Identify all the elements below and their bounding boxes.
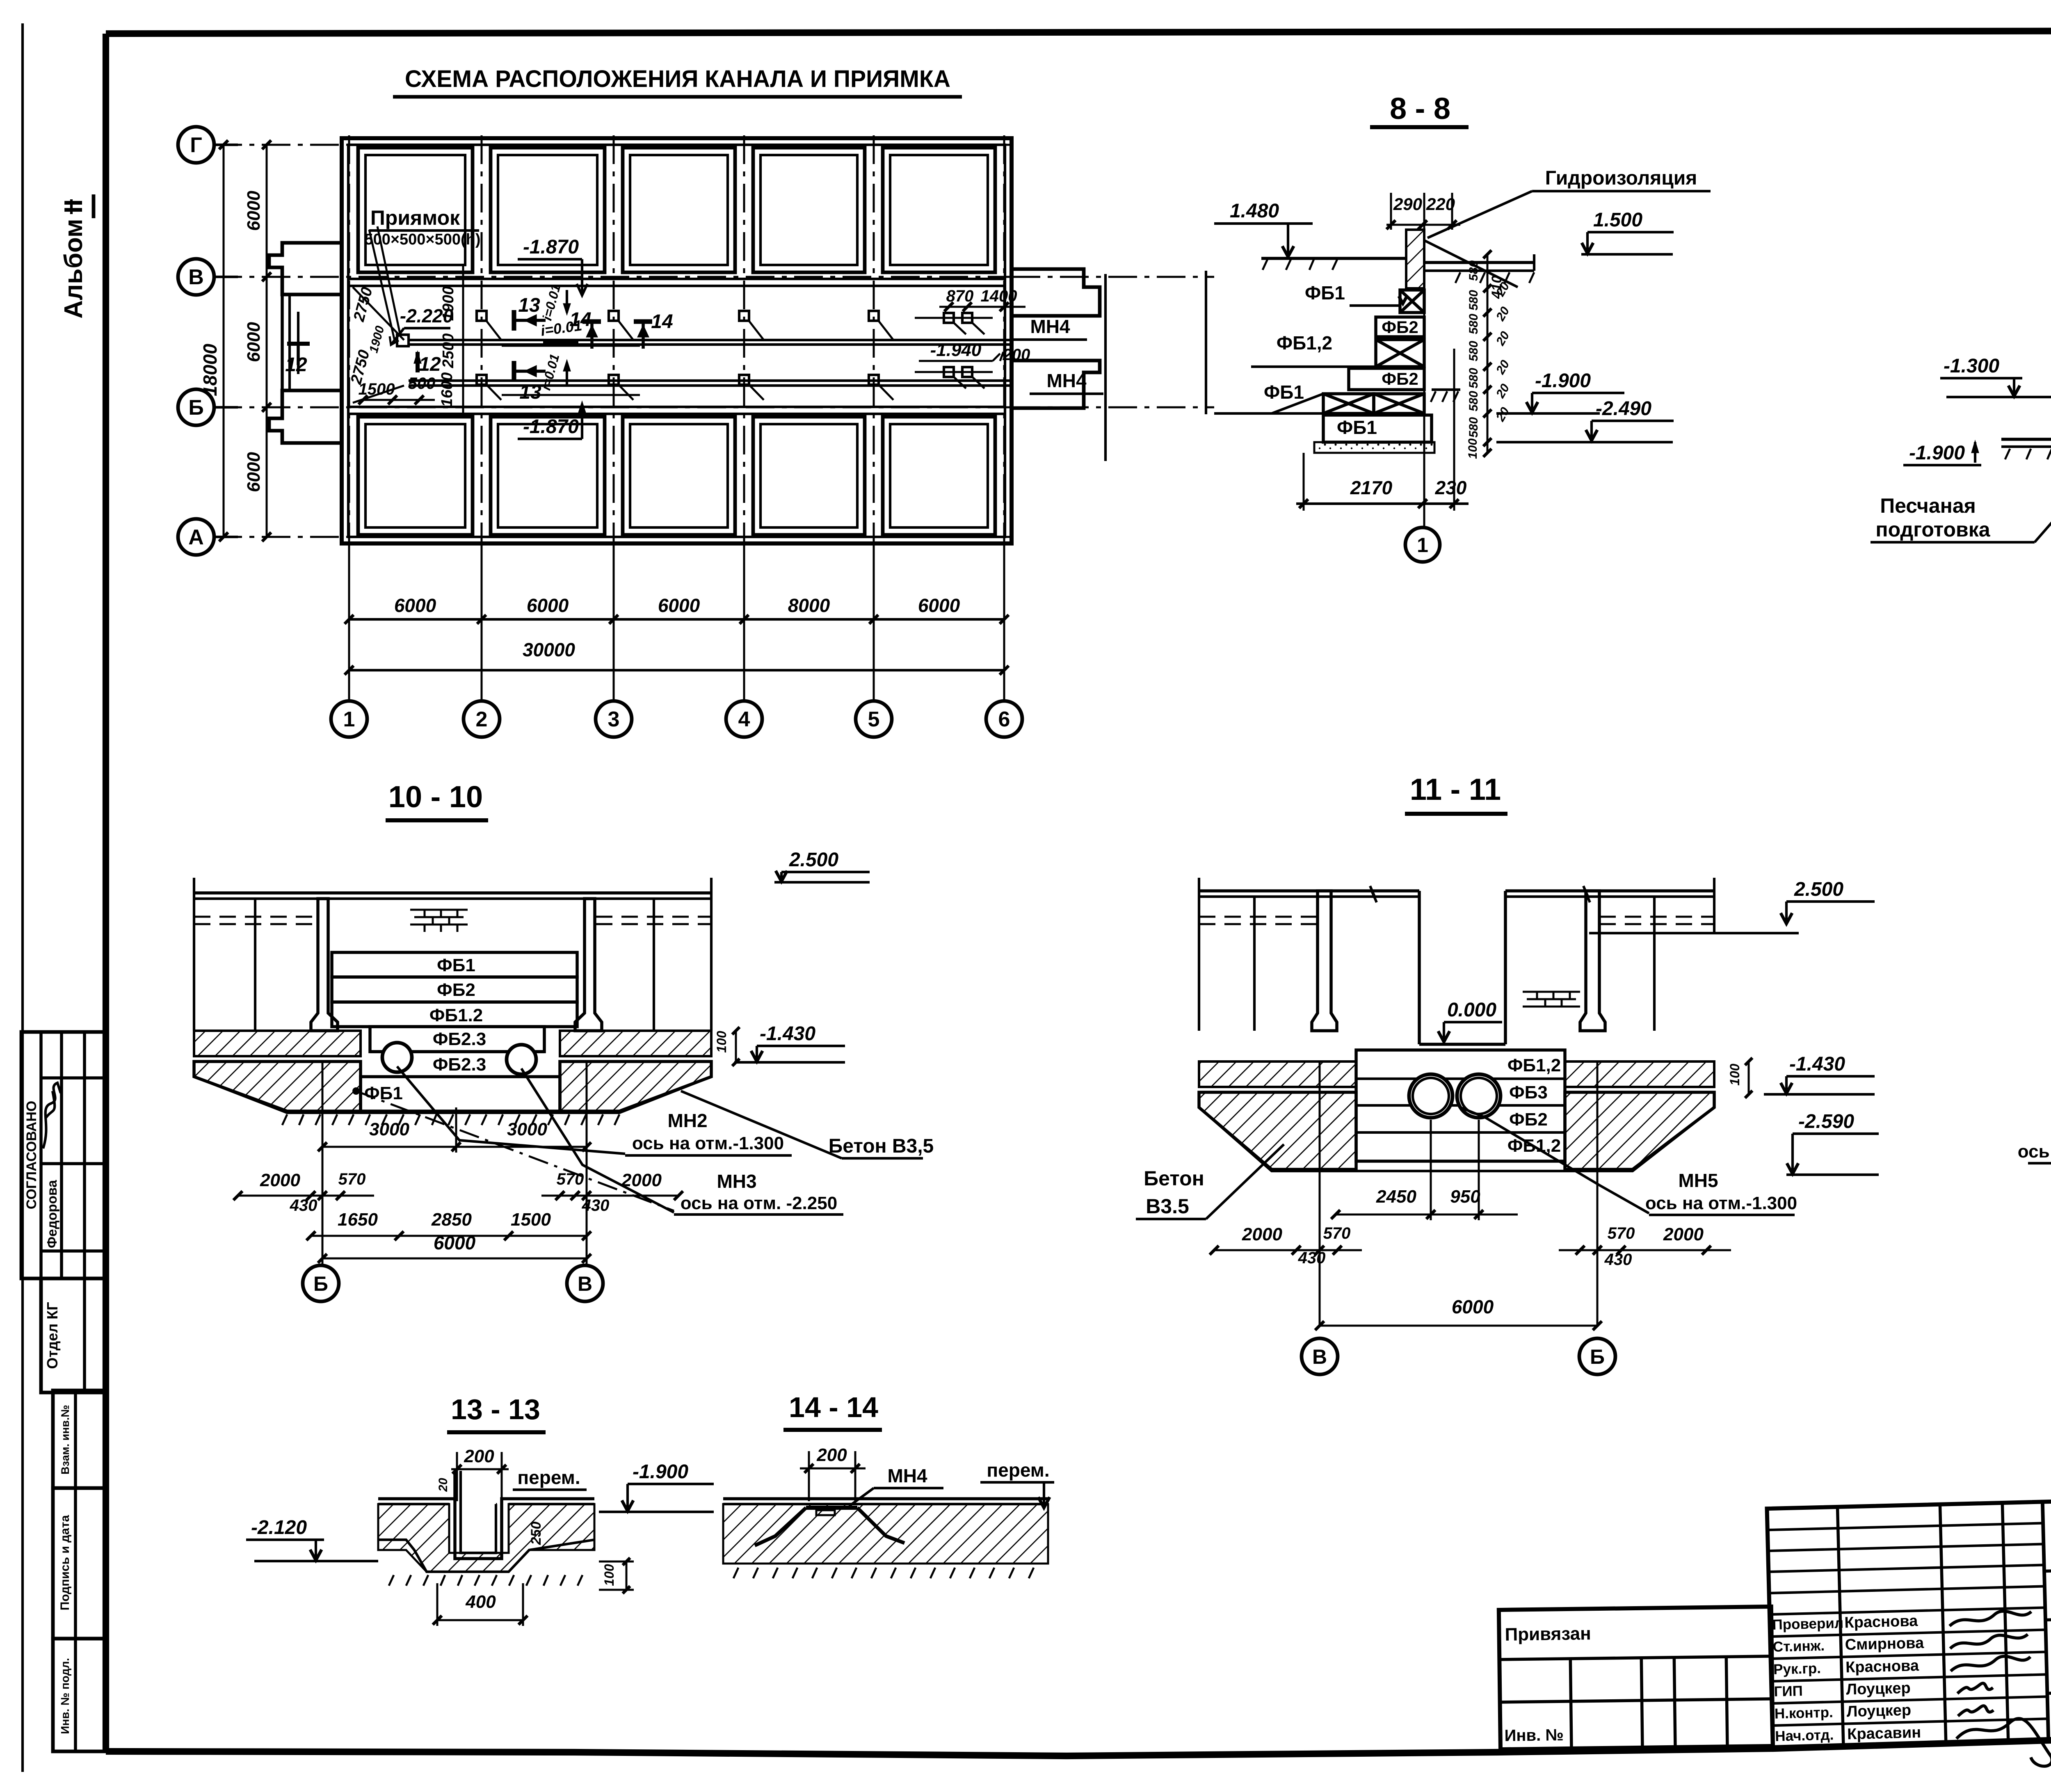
plan: left extension wall bottom <box>269 390 343 443</box>
plan: bottom row tank cells <box>358 417 473 535</box>
s10: pit axis dot leader <box>352 1087 360 1095</box>
svg-text:20: 20 <box>436 1478 450 1492</box>
svg-text:13: 13 <box>518 294 540 316</box>
svg-text:-1.940: -1.940 <box>930 340 982 360</box>
svg-text:Федорова: Федорова <box>44 1180 59 1248</box>
svg-text:ФБ1,2: ФБ1,2 <box>1507 1055 1561 1075</box>
svg-text:Гидроизоляция: Гидроизоляция <box>1545 167 1697 189</box>
svg-text:11 - 11: 11 - 11 <box>1410 772 1501 806</box>
svg-text:13: 13 <box>519 381 541 403</box>
s11: canal opening verticals <box>1418 891 1421 1044</box>
svg-text:570: 570 <box>338 1170 366 1188</box>
s10: block row FB2.3 <box>370 1027 544 1052</box>
s8: block FB1 top <box>1400 290 1424 313</box>
svg-text:2000: 2000 <box>1242 1224 1282 1244</box>
svg-text:ГИП: ГИП <box>1774 1683 1803 1700</box>
s10: right tank interior <box>653 899 655 1031</box>
s11: brick hatch <box>1523 991 1580 993</box>
svg-text:ФБ2: ФБ2 <box>1509 1109 1548 1130</box>
svg-text:-1.870: -1.870 <box>523 236 579 258</box>
svg-text:5: 5 <box>868 708 880 731</box>
s10: top floor lines <box>194 891 711 895</box>
svg-text:1600: 1600 <box>439 372 456 407</box>
svg-text:-2.490: -2.490 <box>1596 398 1651 420</box>
s10: left canal wall <box>311 899 338 1031</box>
svg-text:Проверил: Проверил <box>1772 1615 1843 1633</box>
s10: block row FB1.2 <box>332 1002 577 1027</box>
s11: left tank wall <box>1312 891 1337 1031</box>
s13: under profile <box>378 1540 594 1572</box>
svg-text:6000: 6000 <box>1452 1296 1494 1317</box>
svg-text:А: А <box>188 525 204 549</box>
svg-text:1900: 1900 <box>440 286 457 321</box>
privyazan table <box>1499 1607 1773 1749</box>
sheet trim line left <box>21 23 24 1772</box>
svg-text:-2.120: -2.120 <box>251 1517 307 1539</box>
svg-text:290: 290 <box>1393 194 1422 214</box>
plan: corridor wall lines <box>348 278 1005 280</box>
svg-text:Взам. инв.№: Взам. инв.№ <box>59 1405 71 1475</box>
plan: top row tank cells <box>358 148 473 272</box>
svg-text:6000: 6000 <box>434 1232 476 1253</box>
svg-text:430: 430 <box>1604 1251 1632 1269</box>
svg-text:250: 250 <box>528 1522 544 1545</box>
svg-text:-1.900: -1.900 <box>1909 442 1965 464</box>
s11: left floor slab <box>1199 1062 1356 1087</box>
s10: right wedge <box>560 1062 711 1111</box>
svg-text:Нач.отд.: Нач.отд. <box>1775 1727 1834 1744</box>
otdel KG cell <box>41 1278 107 1393</box>
svg-text:14: 14 <box>651 311 673 333</box>
s13: hatched ground body <box>378 1504 594 1572</box>
svg-text:ось на отм.-1.300: ось на отм.-1.300 <box>1645 1193 1797 1213</box>
svg-text:2000: 2000 <box>621 1170 662 1190</box>
svg-text:400: 400 <box>465 1592 496 1612</box>
plan: slope arrows <box>566 290 568 313</box>
svg-text:ФБ1: ФБ1 <box>1264 381 1304 403</box>
svg-text:Привязан: Привязан <box>1505 1623 1591 1645</box>
svg-text:СХЕМА РАСПОЛОЖЕНИЯ КАНАЛА И: СХЕМА РАСПОЛОЖЕНИЯ КАНАЛА И ПРИЯМКА <box>405 66 950 92</box>
svg-text:-1.430: -1.430 <box>760 1023 815 1045</box>
svg-text:-1.430: -1.430 <box>1789 1053 1845 1075</box>
svg-text:ФБ1: ФБ1 <box>1305 282 1345 304</box>
svg-text:570: 570 <box>1323 1224 1351 1242</box>
svg-text:1.500: 1.500 <box>1593 209 1642 231</box>
s10: block row FB1 <box>332 952 577 977</box>
svg-text:-2.590: -2.590 <box>1798 1111 1854 1132</box>
svg-text:200: 200 <box>464 1446 494 1466</box>
svg-text:500: 500 <box>408 374 436 393</box>
svg-text:200: 200 <box>1003 346 1030 364</box>
plan: right extension end line <box>1104 274 1107 461</box>
svg-text:Подпись и дата: Подпись и дата <box>58 1515 72 1610</box>
s11: excavation bottom <box>1199 1107 1714 1171</box>
svg-text:580: 580 <box>1467 341 1480 361</box>
svg-text:580: 580 <box>1467 290 1480 310</box>
svg-text:8 - 8: 8 - 8 <box>1390 91 1450 126</box>
svg-text:2170: 2170 <box>1350 477 1393 498</box>
svg-text:3000: 3000 <box>369 1119 409 1139</box>
plan: left dim 18000 <box>223 145 225 537</box>
svg-text:-1.900: -1.900 <box>1535 370 1591 392</box>
plan: left extension wall top <box>269 243 343 294</box>
svg-text:II: II <box>59 199 88 213</box>
svg-text:14 - 14: 14 - 14 <box>789 1391 878 1423</box>
s14: embedded plate <box>806 1506 857 1510</box>
s11: right floor slab <box>1565 1062 1714 1087</box>
plan: section cut 13 bottom <box>512 361 516 381</box>
svg-text:2500: 2500 <box>440 333 457 369</box>
s13: slab with trench <box>378 1499 594 1501</box>
svg-text:ФБ1.2: ФБ1.2 <box>429 1005 483 1025</box>
svg-text:ФБ2: ФБ2 <box>1382 317 1418 337</box>
svg-text:Инв. № подл.: Инв. № подл. <box>59 1658 71 1734</box>
svg-text:570: 570 <box>557 1170 584 1188</box>
s8: axis line <box>1423 193 1425 527</box>
svg-text:2.500: 2.500 <box>1794 879 1843 900</box>
svg-text:13 - 13: 13 - 13 <box>451 1393 540 1425</box>
svg-text:1: 1 <box>343 708 355 731</box>
tb: vertical dividers left <box>1837 1507 1843 1746</box>
svg-text:МН4: МН4 <box>1030 316 1070 337</box>
plan: channel slope thick mark <box>543 339 578 345</box>
svg-text:ФБ1: ФБ1 <box>437 955 475 975</box>
svg-text:перем.: перем. <box>517 1467 580 1488</box>
tb: signatures <box>1949 1610 2032 1626</box>
plan: right extension MN4 lower <box>1011 361 1100 408</box>
plan: right extension MN4 upper <box>1011 269 1100 316</box>
s11: right tank <box>1653 897 1656 1031</box>
svg-text:6000: 6000 <box>658 595 700 616</box>
s8: block FB1 xrow <box>1323 394 1374 413</box>
s10: left floor slab hatched <box>194 1031 361 1056</box>
svg-text:3000: 3000 <box>507 1119 547 1139</box>
svg-text:Рук.гр.: Рук.гр. <box>1773 1660 1821 1678</box>
svg-text:Инв. №: Инв. № <box>1504 1726 1564 1745</box>
svg-text:6: 6 <box>998 708 1010 731</box>
s11: break marks <box>1370 886 1377 902</box>
svg-text:СОГЛАСОВАНО: СОГЛАСОВАНО <box>24 1101 39 1210</box>
s10: bottom block FB1 <box>361 1077 560 1111</box>
svg-text:30000: 30000 <box>523 639 575 660</box>
podpis i data cell <box>53 1488 107 1639</box>
plan: anchor squares on axes <box>477 311 486 321</box>
plan: section cut 14 right <box>634 319 652 324</box>
s11: left tank <box>1253 897 1256 1031</box>
tb: project name cell <box>2045 1607 2051 1620</box>
svg-text:10 - 10: 10 - 10 <box>388 780 483 814</box>
svg-text:230: 230 <box>1435 477 1467 498</box>
svg-text:Н.контр.: Н.контр. <box>1774 1704 1833 1722</box>
svg-text:В: В <box>578 1272 592 1295</box>
svg-text:подготовка: подготовка <box>1875 518 1990 541</box>
svg-text:Лоуцкер: Лоуцкер <box>1846 1702 1911 1721</box>
svg-text:2450: 2450 <box>1376 1187 1416 1207</box>
s11: right wedge <box>1565 1092 1714 1169</box>
plan: building outer walls <box>342 138 1012 543</box>
svg-text:200: 200 <box>816 1445 847 1465</box>
svg-text:6000: 6000 <box>244 452 264 492</box>
svg-text:Краснова: Краснова <box>1844 1612 1919 1631</box>
svg-text:Г: Г <box>190 133 202 157</box>
svg-text:2850: 2850 <box>431 1210 472 1230</box>
svg-text:6000: 6000 <box>527 595 569 616</box>
title block <box>1767 1489 2051 1773</box>
s14: slab <box>723 1497 1048 1500</box>
svg-text:430: 430 <box>290 1196 317 1214</box>
svg-text:В: В <box>188 265 204 289</box>
s8: block FB2 lower <box>1349 368 1424 390</box>
svg-text:В: В <box>1312 1345 1327 1368</box>
svg-text:Краснова: Краснова <box>1845 1657 1920 1676</box>
plan: section cut 13 top <box>512 310 516 331</box>
svg-text:Б: Б <box>188 396 203 420</box>
s8: block FB2 upper <box>1376 317 1424 337</box>
svg-text:МН2: МН2 <box>667 1110 707 1131</box>
s8: block FB1 bottom <box>1323 415 1432 442</box>
svg-text:4: 4 <box>738 708 750 731</box>
s10: right canal wall <box>575 899 602 1031</box>
vzam inv cell <box>53 1390 107 1488</box>
s10: block row FB2 <box>332 977 577 1002</box>
svg-text:МН4: МН4 <box>1046 370 1087 391</box>
s8: footing slab <box>1314 442 1434 453</box>
svg-text:570: 570 <box>1608 1224 1635 1242</box>
svg-text:100: 100 <box>714 1031 729 1053</box>
svg-text:ФБ1,2: ФБ1,2 <box>1277 332 1332 354</box>
svg-text:2000: 2000 <box>1663 1224 1704 1244</box>
svg-text:ось на отм. -2.250: ось на отм. -2.250 <box>681 1193 837 1213</box>
svg-text:1400: 1400 <box>981 287 1017 305</box>
s8: ground hatch under wall base <box>1432 388 1460 391</box>
svg-text:Бетон В3,5: Бетон В3,5 <box>829 1135 934 1157</box>
svg-text:580: 580 <box>1467 391 1480 411</box>
svg-text:1.480: 1.480 <box>1230 200 1279 222</box>
s10: axis circles <box>303 1265 339 1301</box>
s11: block stack <box>1356 1050 1565 1161</box>
svg-text:Альбом: Альбом <box>59 219 88 319</box>
svg-text:ФБ3: ФБ3 <box>1509 1082 1548 1103</box>
plan: row axis lines <box>213 144 1013 146</box>
s8: block FB12 <box>1376 340 1424 367</box>
s8: ground line left <box>1261 257 1406 260</box>
plan: channel lines <box>409 339 1012 341</box>
svg-text:12: 12 <box>285 354 307 376</box>
svg-text:Отдел КГ: Отдел КГ <box>44 1302 61 1369</box>
svg-text:-1.300: -1.300 <box>1944 355 1999 377</box>
s11: right outside ground line <box>1589 932 1799 934</box>
s13: trench walls <box>455 1471 502 1559</box>
svg-text:Смирнова: Смирнова <box>1845 1634 1924 1654</box>
svg-text:3: 3 <box>608 708 620 731</box>
svg-text:6000: 6000 <box>918 595 960 616</box>
svg-text:8000: 8000 <box>788 595 830 616</box>
svg-text:Красавин: Красавин <box>1847 1724 1921 1743</box>
svg-text:100: 100 <box>1466 438 1480 459</box>
svg-text:ось на отм.-1.300: ось на отм.-1.300 <box>632 1133 784 1153</box>
svg-text:1650: 1650 <box>338 1210 378 1230</box>
s10: block row FB2.3 lower <box>370 1050 544 1053</box>
s11: right tank wall <box>1580 891 1605 1031</box>
s10: right floor slab hatched <box>560 1031 711 1056</box>
svg-text:580: 580 <box>1467 260 1480 281</box>
svg-text:500×500×500(h): 500×500×500(h) <box>364 231 480 248</box>
s8: axis circle 1 <box>1405 527 1440 562</box>
svg-text:12: 12 <box>419 354 441 375</box>
s10: left tank interior <box>254 899 256 1031</box>
s8: right dim chain <box>1487 254 1489 453</box>
s11: top floor lines <box>1199 889 1419 893</box>
s10: excavation bottom line <box>194 1077 711 1113</box>
svg-text:ФБ2.3: ФБ2.3 <box>433 1029 486 1049</box>
svg-text:220: 220 <box>1426 194 1455 214</box>
s11: axis circles <box>1302 1338 1338 1374</box>
svg-text:-1.900: -1.900 <box>633 1461 688 1483</box>
svg-text:ось на отм. -2.300: ось на отм. -2.300 <box>2018 1141 2051 1162</box>
s8: wall hatched <box>1406 230 1424 288</box>
svg-text:ФБ2.3: ФБ2.3 <box>433 1055 486 1075</box>
svg-text:МН5: МН5 <box>1678 1170 1718 1191</box>
s8: floor slab right <box>1424 261 1534 264</box>
svg-text:2000: 2000 <box>260 1170 300 1190</box>
svg-text:Бетон: Бетон <box>1144 1167 1204 1190</box>
svg-text:Б: Б <box>313 1272 328 1295</box>
svg-text:Ст.инж.: Ст.инж. <box>1772 1638 1825 1655</box>
svg-text:перем.: перем. <box>987 1459 1049 1481</box>
svg-text:580: 580 <box>1467 314 1480 334</box>
svg-text:100: 100 <box>602 1564 617 1586</box>
svg-text:Б: Б <box>1590 1345 1605 1368</box>
s10: left wedge <box>194 1062 361 1111</box>
inv no podl cell <box>53 1639 107 1751</box>
svg-text:950: 950 <box>1450 1187 1480 1207</box>
plan: row axis circles <box>178 127 214 163</box>
svg-text:В3.5: В3.5 <box>1146 1195 1189 1218</box>
svg-text:МН3: МН3 <box>717 1171 756 1192</box>
soglasovano approval block <box>21 1032 107 1278</box>
svg-text:ФБ1: ФБ1 <box>1337 417 1377 438</box>
s11: pipes <box>1409 1074 1453 1118</box>
plan: column axis circles <box>331 701 367 737</box>
svg-text:Приямок: Приямок <box>370 206 460 229</box>
svg-text:580: 580 <box>1467 368 1480 388</box>
svg-text:18000: 18000 <box>199 344 221 396</box>
svg-text:1500: 1500 <box>359 380 395 398</box>
svg-text:6000: 6000 <box>244 191 264 231</box>
plan: pit transition funnel <box>353 226 404 403</box>
tb: small revision rows <box>1768 1523 2043 1530</box>
svg-text:0.000: 0.000 <box>1447 999 1496 1021</box>
plan: MN4 anchor squares <box>944 313 954 323</box>
svg-text:580: 580 <box>1467 417 1480 438</box>
svg-text:ФБ2: ФБ2 <box>437 980 475 1000</box>
plan: pit square <box>397 335 409 346</box>
s10: pipe left <box>382 1043 412 1072</box>
svg-text:1: 1 <box>1417 534 1428 557</box>
plan: channel west end wall <box>281 294 284 390</box>
svg-text:ФБ2: ФБ2 <box>1382 369 1418 388</box>
s10: brick hatch symbol <box>410 909 468 911</box>
plan: left dim column 6000s <box>266 145 268 537</box>
svg-text:2.500: 2.500 <box>789 849 838 871</box>
fedorova signature <box>43 1083 61 1148</box>
plan: column axis lines <box>348 135 350 681</box>
svg-text:430: 430 <box>1298 1249 1326 1267</box>
svg-text:100: 100 <box>1727 1064 1742 1086</box>
svg-text:1500: 1500 <box>511 1210 551 1230</box>
svg-text:6000: 6000 <box>244 322 264 362</box>
svg-text:2: 2 <box>476 708 488 731</box>
svg-text:МН4: МН4 <box>887 1465 927 1486</box>
svg-text:Лоуцкер: Лоуцкер <box>1846 1680 1911 1698</box>
svg-text:6000: 6000 <box>394 595 436 616</box>
s14: hatched body <box>723 1504 1048 1564</box>
s13: trench interior white <box>461 1473 496 1553</box>
svg-text:Песчаная: Песчаная <box>1880 494 1976 517</box>
s11: left wedge <box>1199 1092 1356 1169</box>
tb: big cell top line <box>2044 1559 2051 1571</box>
s10: pipe right <box>507 1045 536 1074</box>
s9: left floor slab <box>2001 438 2051 441</box>
svg-text:-1.870: -1.870 <box>523 416 579 438</box>
